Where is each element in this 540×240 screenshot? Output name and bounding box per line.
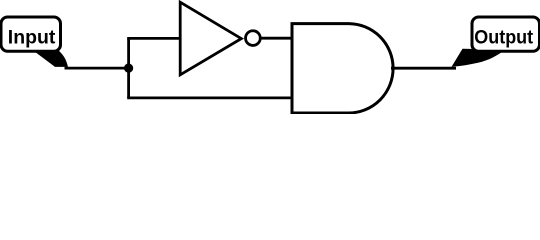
Output label bubble xyxy=(472,17,540,51)
node: junction dot xyxy=(124,64,133,73)
Input label tail pointer xyxy=(33,50,69,67)
svg-text:Output: Output xyxy=(474,26,533,48)
Input label bubble xyxy=(1,17,61,51)
wire: NOT gate output to AND gate upper input xyxy=(260,37,293,40)
wire: input lead from Input label tail to junction node xyxy=(65,67,131,70)
NOT gate U1 inversion bubble xyxy=(246,31,261,46)
wire: bottom branch to AND gate lower input xyxy=(127,97,293,100)
wire: top branch to NOT gate input xyxy=(127,37,181,40)
NOT gate U1 triangle xyxy=(180,2,241,75)
wire: vertical trunk at branch point xyxy=(127,38,130,98)
Output label tail pointer xyxy=(452,49,506,67)
wire: AND gate output lead xyxy=(391,67,456,70)
AND gate U2 body xyxy=(292,24,393,113)
svg-text:Input: Input xyxy=(8,26,56,48)
